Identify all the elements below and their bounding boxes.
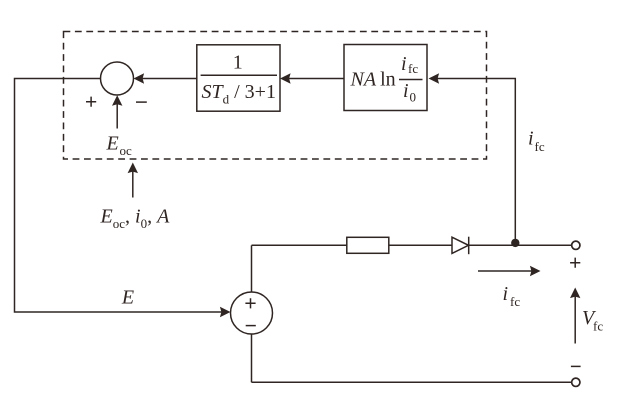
svg-text:fc: fc	[535, 139, 545, 154]
svg-text:i: i	[401, 53, 407, 75]
svg-text:E: E	[106, 133, 119, 155]
svg-text:0: 0	[410, 90, 417, 105]
svg-text:STd / 3+1: STd / 3+1	[202, 81, 276, 107]
svg-text:oc: oc	[120, 143, 133, 158]
svg-text:fc: fc	[408, 61, 418, 76]
svg-text:E: E	[121, 287, 134, 309]
svg-text:i: i	[403, 80, 409, 102]
svg-text:1: 1	[233, 52, 243, 74]
svg-text:i: i	[528, 128, 534, 150]
svg-text:i: i	[503, 283, 509, 305]
svg-text:fc: fc	[510, 294, 520, 309]
svg-text:fc: fc	[593, 319, 603, 334]
svg-text:NA ln: NA ln	[350, 69, 396, 91]
svg-text:Eoc, i0, A: Eoc, i0, A	[100, 206, 171, 232]
